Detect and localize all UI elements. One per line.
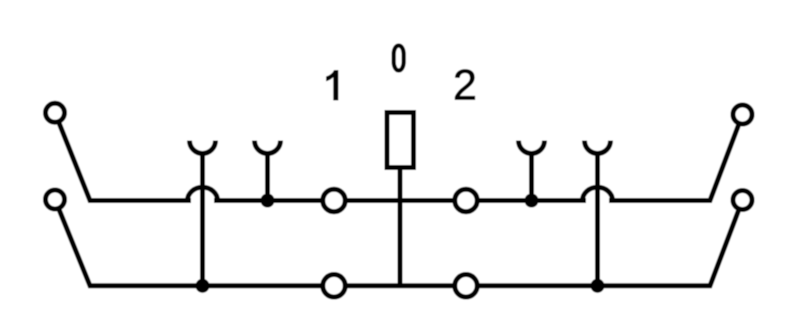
terminal circle R1: [733, 105, 752, 124]
junction dot: left inner stem on upper bus: [261, 194, 275, 208]
open contact circle upper bus left: [323, 189, 346, 212]
contact finger arc (cup) right outer: [585, 141, 611, 154]
wire: stem from right inner cup down to upper bus: [529, 152, 534, 200]
contact finger arc (cup) left inner: [255, 141, 281, 154]
contact finger arc (cup) right inner: [519, 141, 545, 154]
wire: stem from left inner cup down to upper bus: [265, 152, 270, 200]
terminal circle L2: [46, 190, 65, 209]
wire: upper bus right segment + diagonal to terminal R1: [609, 115, 743, 201]
bridge hump over vertical wire at position 2 (right): [583, 187, 613, 200]
wire: upper bus middle segment: [214, 198, 586, 203]
open contact circle upper bus right: [455, 189, 478, 212]
label position 0: [394, 46, 404, 71]
wire: terminal L1 diagonal + upper bus left segment: [55, 113, 191, 201]
junction dot: right inner stem on upper bus: [525, 194, 539, 208]
terminal circle L1: [46, 103, 65, 122]
wire: stem from left outer cup down to lower bus: [200, 152, 205, 285]
junction dot: left outer stem on lower bus: [196, 279, 210, 293]
open contact circle lower bus left: [323, 275, 346, 298]
wire: center stem from actuator down to lower bus: [398, 170, 403, 286]
actuator rectangle (position 0): [387, 113, 414, 168]
terminal circle R2: [733, 191, 752, 210]
label position 1: [327, 71, 338, 101]
bridge hump over vertical wire at position 1 (left): [188, 187, 218, 200]
junction dot: right outer stem on lower bus: [591, 279, 605, 293]
wire: terminal L2 diagonal + lower bus + diagonal to terminal R2: [55, 200, 743, 286]
contact finger arc (cup) left outer: [190, 141, 216, 154]
wire: stem from right outer cup down to lower bus: [595, 152, 600, 285]
svg-text:2: 2: [453, 62, 477, 110]
open contact circle lower bus right: [455, 275, 478, 298]
